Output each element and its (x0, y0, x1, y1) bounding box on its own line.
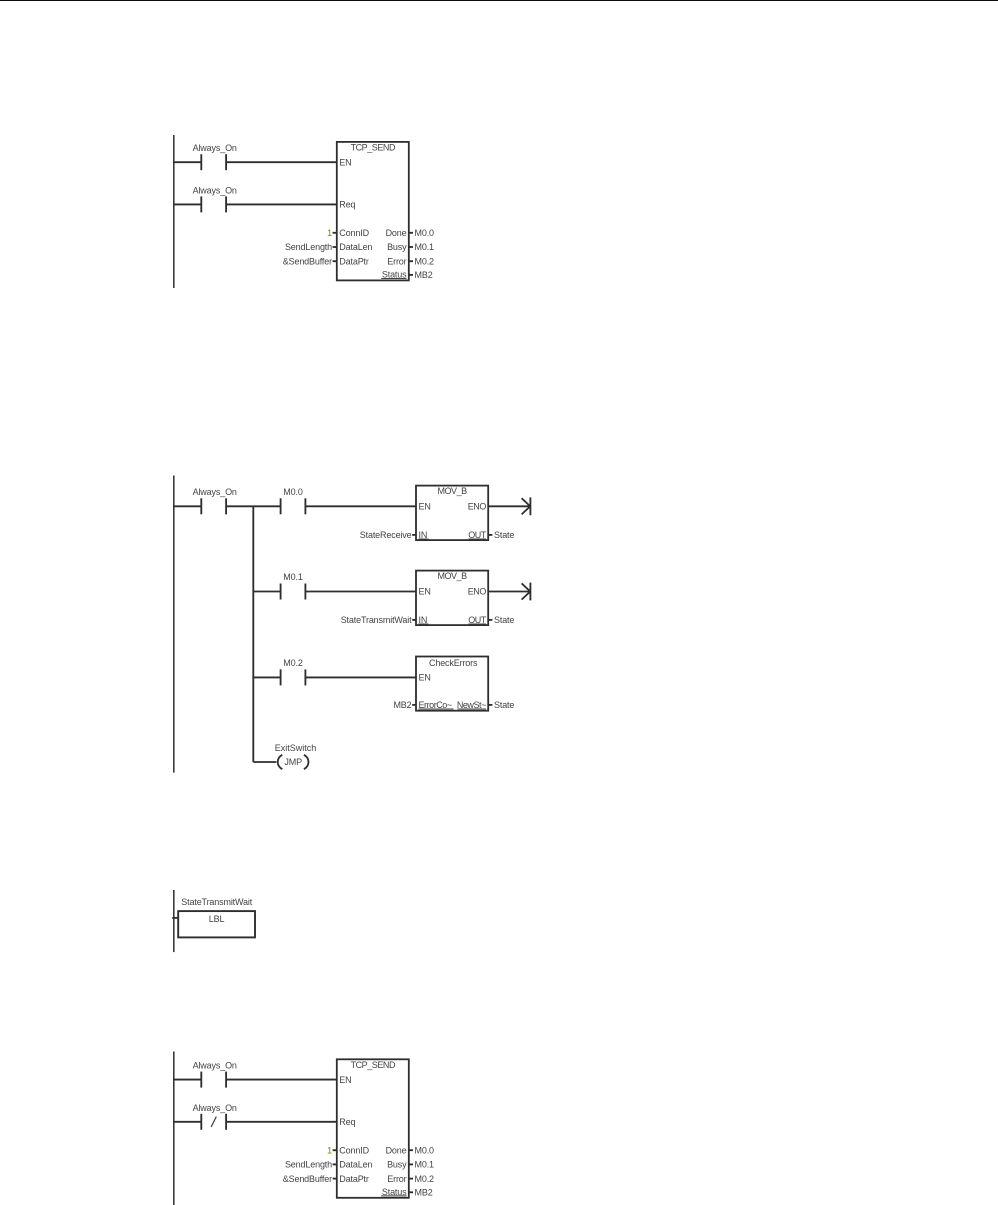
svg-text:SendLength: SendLength (285, 1160, 332, 1170)
svg-text:1: 1 (327, 228, 332, 238)
operand State (CheckErrors) (494, 700, 514, 710)
svg-text:LBL: LBL (209, 914, 225, 924)
svg-text:TCP_SEND: TCP_SEND (351, 143, 396, 153)
box MOV_B 2 (net2) (416, 571, 488, 626)
svg-text:SendLength: SendLength (285, 242, 332, 252)
pin tick Done out (net1) (409, 232, 413, 234)
network 4 left power rail (173, 1052, 175, 1205)
box MOV_B 1 (net2) (416, 486, 488, 540)
box TCP_SEND (net4) (337, 1059, 409, 1198)
wire ENO out (MOV_B 2) (488, 591, 529, 593)
pin tick Status out (net1) (409, 274, 413, 276)
svg-text:EN: EN (419, 502, 431, 512)
svg-text:EN: EN (339, 157, 351, 167)
pin tick Busy out (net1) (409, 246, 413, 248)
svg-text:Status: Status (382, 269, 407, 279)
wire rung1 net4 (173, 1079, 338, 1081)
wire rung2 net2 (253, 591, 416, 593)
svg-text:M0.2: M0.2 (415, 256, 435, 266)
pin tick Busy out (net4) (409, 1163, 413, 1165)
svg-text:M0.0: M0.0 (415, 1145, 435, 1155)
value MB2 (CheckErrors) (393, 700, 411, 710)
contact Always_On (net1 rung1) (193, 143, 237, 170)
wire stub net3 (172, 917, 179, 919)
rung continuation arrow (net2 rung2) (522, 583, 531, 601)
wire rung3 net2 (253, 676, 416, 678)
svg-text:Always_On: Always_On (193, 1103, 237, 1113)
contact M0.1 (net2) (281, 572, 306, 599)
pin tick NewState out (CheckErrors) (488, 704, 492, 706)
pin tick IN in (MOV_B 2) (412, 619, 416, 621)
svg-text:Busy: Busy (387, 242, 407, 252)
pin tick ConnID in (net4) (333, 1149, 337, 1151)
network 2 left power rail (173, 476, 175, 773)
pin tick DataLen in (net4) (333, 1163, 337, 1165)
wire JMP branch net2 (253, 761, 276, 763)
page top border line (0, 0, 998, 1)
value StateTransmitWait (MOV_B 2) (341, 615, 412, 625)
network 1 left power rail (173, 135, 175, 288)
value SendLength (net1) (285, 242, 332, 252)
svg-text:DataPtr: DataPtr (339, 256, 369, 266)
contact Always_On (net2) (193, 487, 237, 514)
wire rung1 net1 (173, 161, 338, 163)
svg-text:MB2: MB2 (415, 1188, 433, 1198)
svg-text:ExitSwitch: ExitSwitch (275, 743, 317, 753)
value 1 ConnID (net1) (327, 228, 332, 238)
svg-text:EN: EN (419, 587, 431, 597)
box TCP_SEND (net1) (337, 142, 409, 281)
operand State (MOV_B 1) (494, 530, 514, 540)
svg-text:Always_On: Always_On (193, 186, 237, 196)
pin tick DataLen in (net1) (333, 246, 337, 248)
svg-text:Always_On: Always_On (193, 143, 237, 153)
svg-text:DataLen: DataLen (339, 242, 372, 252)
pin tick DataPtr in (net4) (333, 1178, 337, 1180)
value 1 ConnID (net4) (327, 1145, 332, 1155)
svg-text:Done: Done (386, 1145, 407, 1155)
svg-text:MB2: MB2 (393, 700, 411, 710)
svg-text:Done: Done (386, 228, 407, 238)
svg-text:DataPtr: DataPtr (339, 1174, 369, 1184)
svg-text:State: State (494, 700, 514, 710)
svg-text:Error: Error (387, 1174, 406, 1184)
contact Always_On (net1 rung2) (193, 186, 237, 213)
svg-text:StateTransmitWait: StateTransmitWait (181, 897, 252, 907)
svg-text:ENO: ENO (468, 502, 487, 512)
operand State (MOV_B 2) (494, 615, 514, 625)
network 3 left power rail (173, 890, 175, 952)
wire rung2 net1 (173, 203, 338, 205)
box LBL StateTransmitWait (net3) (178, 897, 255, 937)
pin tick DataPtr in (net1) (333, 260, 337, 262)
operand M0.1 Busy (net1) (415, 242, 435, 252)
pin tick OUT out (MOV_B 2) (488, 619, 492, 621)
svg-text:EN: EN (339, 1075, 351, 1085)
wire rung1 net2 (173, 505, 417, 507)
branch vertical wire net2 (252, 506, 254, 762)
svg-text:Status: Status (382, 1187, 407, 1197)
svg-text:Busy: Busy (387, 1160, 407, 1170)
svg-text:TCP_SEND: TCP_SEND (351, 1060, 396, 1070)
pin tick IN in (MOV_B 1) (412, 534, 416, 536)
svg-text:&SendBuffer: &SendBuffer (283, 256, 332, 266)
pin tick Done out (net4) (409, 1149, 413, 1151)
svg-text:DataLen: DataLen (339, 1160, 372, 1170)
pin tick Error out (net4) (409, 1178, 413, 1180)
box CheckErrors (net2) (416, 657, 488, 711)
svg-text:M0.0: M0.0 (415, 228, 435, 238)
rung continuation arrow (net2 rung1) (522, 497, 531, 515)
operand MB2 Status (net4) (415, 1188, 433, 1198)
svg-text:M0.2: M0.2 (283, 658, 303, 668)
contact negated Always_On (net4 rung2) (193, 1103, 237, 1130)
operand MB2 Status (net1) (415, 270, 433, 280)
svg-text:Always_On: Always_On (193, 1060, 237, 1070)
value StateReceive (MOV_B 1) (360, 530, 412, 540)
pin tick OUT out (MOV_B 1) (488, 534, 492, 536)
svg-text:Error: Error (387, 256, 406, 266)
wire ENO out (MOV_B 1) (488, 505, 529, 507)
svg-text:CheckErrors: CheckErrors (429, 658, 478, 668)
svg-text:M0.1: M0.1 (415, 242, 435, 252)
value &SendBuffer (net4) (283, 1174, 332, 1184)
value &SendBuffer (net1) (283, 256, 332, 266)
svg-text:M0.0: M0.0 (283, 487, 303, 497)
svg-text:State: State (494, 615, 514, 625)
contact M0.2 (net2) (281, 658, 306, 685)
svg-text:MOV_B: MOV_B (437, 571, 467, 581)
contact M0.0 (net2) (281, 487, 306, 514)
svg-text:Always_On: Always_On (193, 487, 237, 497)
svg-text:Req: Req (339, 200, 355, 210)
contact Always_On (net4 rung1) (193, 1060, 237, 1087)
svg-text:&SendBuffer: &SendBuffer (283, 1174, 332, 1184)
svg-text:M0.2: M0.2 (415, 1174, 435, 1184)
svg-text:StateReceive: StateReceive (360, 530, 412, 540)
operand M0.2 Error (net4) (415, 1174, 435, 1184)
svg-text:ConnID: ConnID (339, 1145, 369, 1155)
pin tick Status out (net4) (409, 1191, 413, 1193)
svg-text:State: State (494, 530, 514, 540)
svg-text:M0.1: M0.1 (283, 572, 303, 582)
svg-text:M0.1: M0.1 (415, 1160, 435, 1170)
svg-text:JMP: JMP (284, 757, 302, 767)
pin tick Error out (net1) (409, 260, 413, 262)
value SendLength (net4) (285, 1160, 332, 1170)
svg-text:ConnID: ConnID (339, 228, 369, 238)
coil JMP ExitSwitch (net2) (275, 743, 317, 769)
operand M0.0 Done (net1) (415, 228, 435, 238)
svg-text:MB2: MB2 (415, 270, 433, 280)
operand M0.0 Done (net4) (415, 1145, 435, 1155)
svg-text:Req: Req (339, 1117, 355, 1127)
wire rung2 net4 (173, 1121, 338, 1123)
svg-text:MOV_B: MOV_B (437, 486, 467, 496)
svg-text:EN: EN (419, 673, 431, 683)
svg-text:ENO: ENO (468, 587, 487, 597)
svg-text:StateTransmitWait: StateTransmitWait (341, 615, 412, 625)
operand M0.1 Busy (net4) (415, 1160, 435, 1170)
operand M0.2 Error (net1) (415, 256, 435, 266)
svg-text:1: 1 (327, 1145, 332, 1155)
pin tick ErrorCode in (CheckErrors) (412, 704, 416, 706)
pin tick ConnID in (net1) (333, 232, 337, 234)
